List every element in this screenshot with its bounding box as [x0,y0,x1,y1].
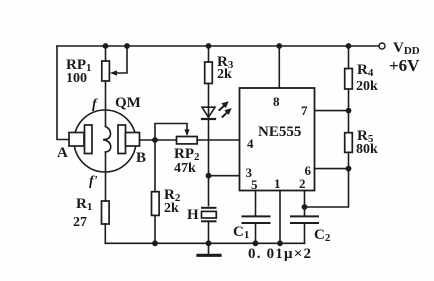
wire RP1 to heater [105,81,107,127]
svg-text:QM: QM [115,95,141,111]
wire pin3 [209,175,240,177]
wire R4 top [348,46,350,69]
potentiometer RP1 [102,61,110,81]
wire C2 bottom [304,223,306,243]
resistor R5 [345,133,353,153]
QM electrode A stem [69,133,84,147]
svg-text:f': f' [89,174,98,189]
svg-text:100: 100 [66,71,87,86]
op-amp U1 NE555 body [240,88,315,191]
wire pin2 to pin6 link [305,169,349,207]
wire RP2 wiper link [155,124,187,141]
wire pin2 [304,191,306,216]
wire R5 bottom [348,152,350,168]
svg-text:2k: 2k [164,201,179,216]
svg-text:VDD: VDD [393,40,420,57]
svg-text:2: 2 [299,176,306,191]
wire LED to output node [208,119,210,206]
wire pin1 [279,191,281,244]
wire R4 to R5 [348,89,350,133]
potentiometer RP2 [177,137,198,144]
svg-text:6: 6 [305,163,312,178]
wire pin6 [315,168,349,170]
svg-text:B: B [136,150,146,166]
svg-text:R1: R1 [76,196,92,213]
svg-text:+6V: +6V [389,56,420,75]
svg-text:20k: 20k [356,79,378,94]
svg-text:R4: R4 [357,62,374,79]
wire R2 hang [154,140,156,192]
wire H bottom [208,221,210,243]
svg-text:C1: C1 [233,224,249,241]
QM electrode A plate [85,125,93,154]
resistor R2 [152,192,160,216]
wire RP1 wiper [114,46,127,73]
wire pin7 [315,110,349,112]
LED light arrows [220,101,232,117]
svg-text:27: 27 [73,215,87,230]
wire pin5 [255,191,257,216]
wire RP2 to pin4 [197,139,239,141]
resistor R3 [205,62,213,84]
resistor R1 [102,201,110,224]
svg-text:A: A [57,145,68,161]
wire pin8 [278,46,280,88]
svg-text:f: f [92,97,98,112]
svg-text:1: 1 [274,176,281,191]
wire R3 top [208,46,210,62]
wire bottom ground rail [105,242,304,244]
svg-text:5: 5 [251,177,258,192]
svg-text:C2: C2 [314,227,331,244]
QM electrode B stem [126,133,140,147]
wire C1 bottom [255,223,257,243]
svg-text:8: 8 [273,94,280,109]
svg-text:47k: 47k [174,161,196,176]
wire RP1 top [105,46,107,61]
QM heater coil [103,127,111,153]
wire heater bottom to R1 [105,152,107,201]
QM electrode B plate [118,125,126,154]
svg-text:4: 4 [247,136,254,151]
wire R2 bottom [154,215,156,243]
wire left rail [57,46,69,140]
wire R3 to LED [208,84,210,120]
svg-text:7: 7 [301,103,308,118]
ground [208,243,210,254]
svg-text:2k: 2k [217,67,232,82]
node VDD terminal [379,43,385,49]
capacitor C2 [291,215,318,217]
resistor R4 [345,69,353,90]
wire B lead [140,139,177,141]
wire R1 to ground rail [104,224,106,243]
gas sensor QM body [74,110,136,172]
capacitor C1 [243,215,270,217]
buzzer H [202,207,216,209]
svg-text:H: H [187,207,199,223]
svg-text:NE555: NE555 [258,124,301,140]
wire top supply rail [57,45,379,47]
svg-text:80k: 80k [356,142,378,157]
LED D1 [202,107,215,117]
svg-text:0. 01μ×2: 0. 01μ×2 [248,246,312,262]
